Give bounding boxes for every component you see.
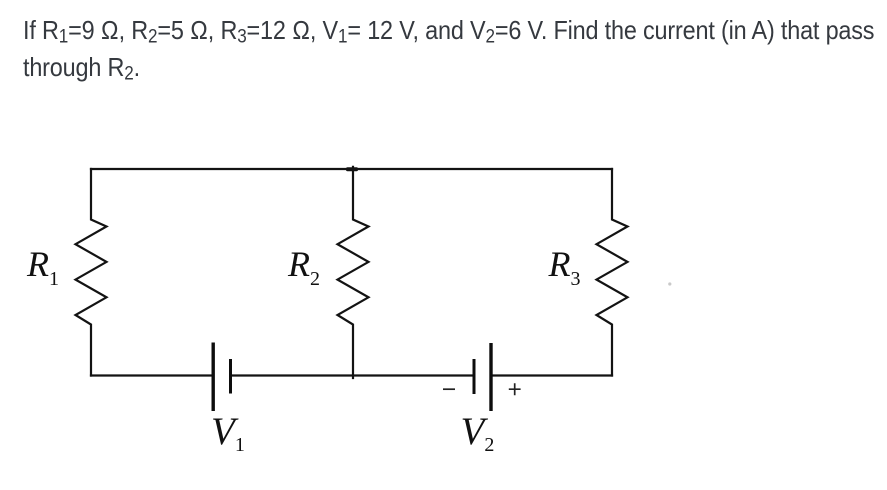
resistor R3: [597, 169, 628, 376]
faint artifact dot: [668, 282, 671, 285]
wire top horizontal: [91, 168, 612, 170]
resistor R2: [338, 167, 369, 378]
wire bottom middle segment: [232, 374, 473, 376]
battery V1: [213, 343, 230, 412]
svg-text:R3: R3: [548, 244, 581, 290]
svg-text:V2: V2: [461, 410, 495, 456]
battery V1 short plate: [229, 359, 232, 394]
battery V2 short plate: [473, 359, 476, 394]
svg-text:R2: R2: [287, 244, 320, 290]
wire bottom left segment: [91, 374, 212, 376]
plus sign of V2: [509, 383, 521, 395]
svg-text:R1: R1: [26, 244, 59, 290]
minus sign of V2: [443, 388, 455, 390]
wire bottom right segment: [493, 374, 613, 376]
resistor R1: [76, 169, 107, 376]
svg-text:V1: V1: [211, 410, 245, 456]
battery V2: [474, 343, 491, 411]
node junction R2 top: [346, 167, 358, 171]
battery V2 long plate: [489, 343, 492, 411]
battery V1 long plate: [211, 343, 214, 412]
